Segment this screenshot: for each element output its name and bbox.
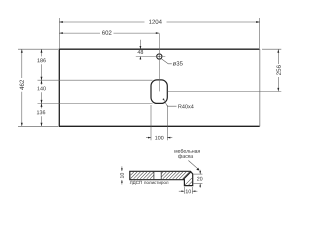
dim 602 line xyxy=(59,32,100,34)
ext line bottom left xyxy=(18,125,58,127)
dim 10 left arrows xyxy=(121,168,123,171)
dim 462 line xyxy=(21,49,23,78)
dim 256 arrows xyxy=(277,49,279,53)
dim 256 text xyxy=(276,65,280,75)
section material text xyxy=(130,181,142,185)
dim 462 text xyxy=(20,80,24,90)
dim 136 arrows xyxy=(41,103,43,107)
label chamfer arrow xyxy=(196,168,199,171)
dim 10b arrows xyxy=(181,190,184,192)
dim 20 ext top xyxy=(194,173,203,175)
countertop right edge xyxy=(259,49,261,126)
dim 140 line xyxy=(41,80,43,84)
cutout top tangent line xyxy=(38,79,153,81)
hole horizontal centerline xyxy=(136,56,166,58)
label dia35 text xyxy=(173,61,183,65)
section hatch xyxy=(131,172,193,185)
dim 48 line top xyxy=(139,40,141,49)
dim 1204 arrows xyxy=(59,21,63,23)
section hole cut left edge xyxy=(153,172,155,179)
label chamfer line2 xyxy=(178,154,193,159)
dim 100 text xyxy=(155,136,163,140)
section inner chamfer xyxy=(183,171,191,179)
dim 20 ext bottom xyxy=(194,183,203,185)
dim 1204 ext right xyxy=(259,18,261,48)
dim 10b text xyxy=(186,189,191,193)
cutout center line right xyxy=(168,90,282,92)
dim 20 line xyxy=(199,170,201,174)
section bar outline xyxy=(130,171,193,185)
dim 100 ext right xyxy=(166,105,168,140)
dim 20 text xyxy=(197,177,202,181)
dim 256 line xyxy=(277,49,279,64)
dim 602 text xyxy=(102,31,111,35)
dim 100 line xyxy=(146,137,151,139)
label dia35 leader xyxy=(161,59,172,64)
dim 10b ext right xyxy=(191,187,193,194)
dim 186 line xyxy=(41,49,43,56)
ext line top left xyxy=(18,48,58,50)
dim 10 left line xyxy=(121,166,123,170)
sink cutout xyxy=(151,80,167,104)
dim 186 arrows xyxy=(41,49,43,53)
dim 1204 ext left xyxy=(58,18,60,48)
label chamfer line1 xyxy=(174,149,199,153)
dim 462 arrows xyxy=(21,49,23,53)
dim 100 ext left xyxy=(150,105,152,140)
dim 1204 text xyxy=(149,20,162,24)
dim 48 line bottom xyxy=(139,57,141,60)
cutout bottom tangent line xyxy=(38,102,153,104)
countertop outline xyxy=(59,49,259,126)
dim 140 arrows xyxy=(41,80,43,84)
dim 10b line xyxy=(179,190,185,192)
dim 140 text xyxy=(37,87,45,91)
dim 10 left text xyxy=(120,173,124,178)
faucet hole xyxy=(157,54,162,59)
vertical centerline xyxy=(158,34,160,92)
dim 20 arrows xyxy=(199,171,201,174)
dim 10b ext left xyxy=(183,187,185,194)
dim 100 arrows xyxy=(148,137,151,139)
dim 186 text xyxy=(37,58,45,62)
dim 136 line xyxy=(41,103,43,108)
dim 48 text xyxy=(138,50,144,54)
dim 136 text xyxy=(37,110,45,114)
dim 48 arrows xyxy=(140,46,142,49)
ext line top right xyxy=(262,48,281,50)
section hole cut right edge xyxy=(160,172,162,179)
label R40x4 leader xyxy=(164,99,177,106)
label R40x4 dot xyxy=(163,99,165,101)
dim 602 arrows xyxy=(59,32,63,34)
dim 1204 line xyxy=(59,21,144,23)
label chamfer leader xyxy=(188,161,198,170)
label R40x4 text xyxy=(178,104,193,108)
